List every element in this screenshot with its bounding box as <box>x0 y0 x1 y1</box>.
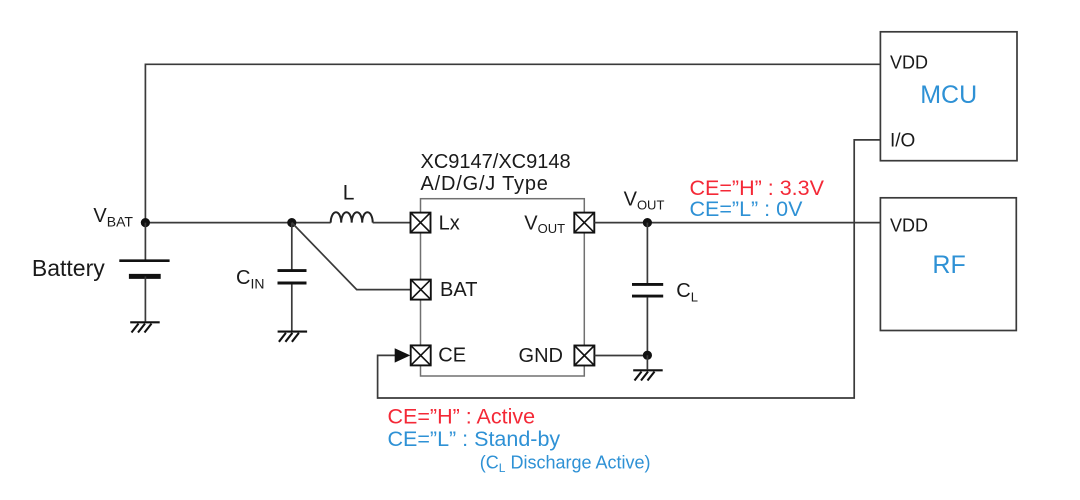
ground (battery) <box>130 322 160 332</box>
battery B1 <box>119 223 169 322</box>
capacitor CIN <box>278 223 307 331</box>
svg-text:BAT: BAT <box>440 279 477 301</box>
svg-text:(CL Discharge Active): (CL Discharge Active) <box>480 453 651 476</box>
svg-text:VDD: VDD <box>890 215 928 235</box>
wire input node to BAT pin <box>292 223 411 290</box>
pin Lx <box>411 212 460 234</box>
RF block <box>880 198 1016 331</box>
svg-text:CE: CE <box>438 345 466 367</box>
wire inductor to Lx pin <box>373 222 411 224</box>
svg-text:GND: GND <box>519 345 563 367</box>
node VBAT <box>141 218 150 227</box>
capacitor CL <box>632 223 663 355</box>
svg-text:MCU: MCU <box>920 81 977 109</box>
wire VOUT pin to RF VDD <box>594 222 880 224</box>
svg-text:CE=”L” : 0V: CE=”L” : 0V <box>690 197 804 221</box>
ground (CIN) <box>278 332 308 342</box>
svg-text:I/O: I/O <box>890 130 915 151</box>
svg-text:CE=”H” : Active: CE=”H” : Active <box>388 404 536 428</box>
svg-text:VDD: VDD <box>890 53 928 73</box>
wire VBAT node to inductor <box>145 222 330 224</box>
svg-text:Battery: Battery <box>32 255 105 281</box>
svg-text:Lx: Lx <box>439 212 460 234</box>
svg-text:XC9147/XC9148: XC9147/XC9148 <box>421 151 571 173</box>
pin VOUT <box>524 212 594 236</box>
node GND junction <box>643 351 652 360</box>
wire MCU I/O feedback to CE <box>378 140 881 398</box>
node VOUT <box>643 218 652 227</box>
svg-text:CE=”L” : Stand-by: CE=”L” : Stand-by <box>388 427 561 451</box>
pin GND <box>519 345 595 367</box>
MCU block <box>880 32 1017 161</box>
arrow into CE pin <box>395 348 411 362</box>
pin CE <box>411 345 466 367</box>
pin BAT <box>411 279 478 301</box>
svg-text:A/D/G/J Type: A/D/G/J Type <box>421 173 549 195</box>
wire GND pin to ground node <box>594 355 647 357</box>
wire GND node to ground <box>646 355 648 369</box>
svg-text:L: L <box>343 181 355 204</box>
wire VBAT riser and top rail to MCU VDD <box>145 64 880 222</box>
IC U1 body XC9147/XC9148 <box>421 199 585 376</box>
inductor L <box>331 212 373 222</box>
node input (CIN junction) <box>287 218 296 227</box>
ground (output) <box>633 370 663 380</box>
svg-text:RF: RF <box>932 251 965 279</box>
